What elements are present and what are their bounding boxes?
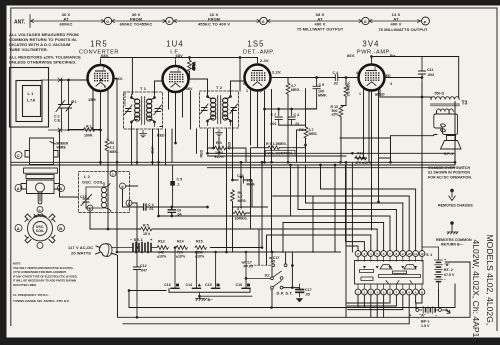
left black border bar (0, 0, 7, 345)
wire loop bottom (49, 129, 101, 131)
svg-text:1B5: 1B5 (88, 97, 96, 102)
tube V1 1R5 converter (88, 59, 114, 91)
ground A battery (445, 309, 450, 313)
svg-text:L 2: L 2 (84, 174, 91, 179)
svg-text:LYTIC CONDENSER FOR REPLACEMEN: LYTIC CONDENSER FOR REPLACEMENT. (13, 270, 67, 274)
svg-text:+: + (444, 258, 446, 262)
svg-text:B: B (59, 226, 62, 231)
svg-text:±10%: ±10% (176, 255, 186, 259)
svg-text:3: 3 (390, 82, 392, 86)
wire bottom rail y307.5 (129, 284, 455, 308)
svg-text:C 4: C 4 (294, 113, 300, 117)
svg-text:A: A (17, 226, 20, 231)
svg-text:R 1: R 1 (86, 125, 92, 129)
capacitor C5 (170, 181, 175, 186)
wire rail y207 (60, 130, 87, 197)
wire T2 plate down (207, 129, 209, 153)
optional dashed wire (251, 264, 272, 266)
wire vertical x241 (233, 162, 268, 207)
svg-text:3: 3 (87, 72, 89, 76)
svg-text:S.P.-1: S.P.-1 (444, 152, 454, 156)
svg-text:1.7A: 1.7A (27, 98, 36, 103)
wire 3V4 pins down (355, 90, 379, 230)
svg-text:R2: R2 (110, 141, 115, 145)
svg-text:600KC: 600KC (60, 22, 73, 27)
wire R8 bottom (305, 138, 307, 162)
wire plug bottom down (107, 248, 117, 257)
wire socket top bundle (346, 84, 423, 251)
osc coil body side view (25, 138, 58, 165)
note all voltages (9, 32, 79, 52)
wire R7 ends (233, 162, 251, 229)
svg-text:OSC. COIL: OSC. COIL (82, 180, 104, 185)
wire voice coil return (391, 135, 438, 163)
capacitor C4 coupling (335, 75, 337, 81)
svg-text:R14: R14 (177, 240, 184, 244)
wire long vertical x158 (158, 129, 160, 216)
svg-text:S2: S2 (265, 273, 271, 278)
capacitor C10 (241, 177, 243, 183)
svg-text:−: − (444, 278, 446, 282)
wire 3V4 screen right (385, 77, 423, 79)
wire T1 output right (160, 109, 163, 127)
svg-text:.001: .001 (270, 122, 277, 126)
svg-text:C 1: C 1 (71, 100, 77, 104)
resistor R9b 3.3MEG (344, 85, 348, 96)
svg-text:550 Ω: 550 Ω (435, 92, 445, 96)
svg-text:.047: .047 (140, 269, 147, 273)
tube V3 1S5 det-amp (245, 59, 271, 91)
svg-text:C.E.: C.E. (54, 119, 61, 123)
svg-text:P: P (424, 19, 427, 24)
wire long vertical x117 (116, 79, 118, 253)
wire rail y153 right (208, 153, 456, 167)
resistor R1 (84, 128, 95, 132)
svg-text:TUNING RANGE 535 -1620KC. STD.: TUNING RANGE 535 -1620KC. STD. B'C. (13, 299, 70, 303)
svg-text:T 1: T 1 (140, 86, 147, 91)
capacitor C2 trimmer (56, 80, 65, 130)
svg-text:1S5: 1S5 (247, 40, 264, 49)
svg-text:MEG.: MEG. (309, 132, 318, 136)
top black border bar (0, 0, 500, 6)
wire grid chain (341, 78, 346, 163)
resistor R7 (286, 83, 290, 94)
svg-text:15 Λ: 15 Λ (143, 232, 151, 236)
wire S2 top feeds (272, 252, 292, 277)
svg-text:.02: .02 (333, 82, 338, 86)
capacitor C12 electrolytic (134, 248, 141, 318)
svg-text:3V4: 3V4 (362, 40, 379, 49)
switch S1 wafer box (355, 261, 424, 285)
svg-text:100K: 100K (84, 134, 93, 138)
svg-text:C 4: C 4 (333, 71, 339, 75)
svg-text:7: 7 (260, 90, 262, 94)
svg-text:12: 12 (421, 252, 424, 256)
capacitor C14 (144, 204, 146, 210)
svg-text:3: 3 (162, 73, 164, 77)
wire tube3 plate right (287, 94, 289, 117)
svg-text:400 V: 400 V (391, 22, 402, 27)
svg-text:B+: B+ (390, 53, 396, 58)
svg-text:D.P. S.T.: D.P. S.T. (277, 291, 293, 296)
resistor R2 (105, 139, 109, 150)
svg-text:BT- 2: BT- 2 (444, 268, 453, 272)
speaker SP-1 (441, 136, 462, 150)
switch S2 DPST (271, 271, 283, 289)
wire x288 down (287, 117, 289, 162)
svg-text:FOR AC/ DC OPERATION.: FOR AC/ DC OPERATION. (428, 175, 472, 179)
svg-text:IF ANY OTHER TYPE OF ELECTROLY: IF ANY OTHER TYPE OF ELECTROLYTIC IS USE… (13, 274, 78, 278)
transformer T1 (124, 92, 163, 129)
svg-text:G: G (364, 20, 367, 24)
wire x296 (297, 130, 306, 162)
svg-text:RETURN B—: RETURN B— (441, 243, 464, 247)
svg-text:A: A (415, 290, 417, 294)
wire x190 vertical (191, 91, 197, 153)
svg-text:G: G (262, 20, 265, 24)
wire long vertical x165 (165, 129, 167, 165)
svg-text:.01: .01 (149, 207, 154, 211)
svg-text:68V: 68V (186, 87, 193, 91)
svg-text:C13: C13 (164, 283, 171, 287)
S1 pin stubs (358, 256, 422, 289)
link symbol bottom (58, 128, 62, 132)
svg-text:MEG.: MEG. (238, 199, 247, 203)
svg-text:IN DOTTED LINES.: IN DOTTED LINES. (13, 283, 37, 287)
svg-text:1: 1 (359, 92, 361, 96)
svg-text:75 MILLIWATT OUTPUT: 75 MILLIWATT OUTPUT (297, 27, 344, 32)
plug P1 117V (96, 244, 113, 257)
svg-text:MEG.: MEG. (291, 88, 300, 92)
svg-text:11: 11 (414, 252, 417, 256)
svg-text:.05: .05 (270, 260, 275, 264)
node G4 (362, 17, 369, 24)
node G1 (104, 17, 111, 24)
inductor L1 loop antenna (10, 68, 49, 128)
svg-text:G: G (106, 20, 109, 24)
svg-text:R13: R13 (158, 240, 165, 244)
capacitor C13 (174, 248, 176, 288)
wire L2 to C14 (123, 186, 208, 248)
resistor R6 (231, 190, 235, 201)
wire rail y252 (117, 251, 341, 253)
wire tube1 plate top (101, 58, 258, 95)
wire 3V4 plate to T3 (380, 89, 431, 100)
label 68X AT 400V 75 MILLIWATT OUTPUT (297, 12, 344, 32)
wire vertical x232 (232, 109, 234, 252)
wire heater rail (210, 162, 262, 247)
resistor R13 (157, 246, 168, 250)
svg-text:1R5: 1R5 (90, 40, 108, 49)
svg-text:MODELS 4L02, 4L02G,: MODELS 4L02, 4L02G, (485, 235, 495, 326)
wire tube1 pin down to R1 (93, 88, 95, 130)
resistor R2b screen 1U4 (188, 60, 192, 71)
resistor R9 volume control (268, 146, 279, 150)
svg-text:TUBE VOLTMETER.: TUBE VOLTMETER. (9, 47, 48, 52)
svg-text:CONVERTER: CONVERTER (79, 50, 119, 56)
svg-text:S1 SHOWN IN POSITION: S1 SHOWN IN POSITION (428, 171, 470, 175)
S1 bottom contact row (355, 289, 425, 295)
wire switch S2 verticals (272, 252, 300, 308)
svg-text:"A": "A" (419, 313, 426, 318)
svg-text:2: 2 (178, 68, 180, 72)
green wire tag (50, 142, 55, 145)
note all resistors (9, 55, 81, 65)
wire T1 secondary to tube2 grid (155, 81, 163, 94)
svg-text:PWR.-AMP.: PWR.-AMP. (357, 50, 391, 56)
wire vol control area (251, 89, 306, 163)
resistor R8 (304, 127, 308, 138)
wire 3V4 plate top B+ (372, 57, 459, 98)
svg-text:4 7: 4 7 (237, 207, 242, 211)
terminal A circled bottom view (15, 225, 22, 232)
wire tube1 right 34V (114, 78, 118, 80)
label MODELS (471, 235, 495, 338)
wire vertical x219 (218, 137, 220, 153)
wire T1 ground bus (132, 127, 144, 165)
wire 1S5 plate through R7 (287, 83, 289, 94)
common bus bracket (169, 289, 250, 293)
wire C10 R6 tie (233, 180, 253, 207)
S1 top contact row (355, 251, 425, 257)
wire screen drop T2 (239, 58, 241, 92)
capacitor C6 (168, 207, 175, 216)
wire loop top to grid (41, 79, 88, 81)
wire socket bottom drops (123, 295, 416, 324)
L2 pin a circled (87, 205, 93, 211)
coil base with lugs (21, 180, 60, 194)
L2 pin d circled (120, 183, 126, 189)
speaker voice coil (434, 114, 458, 135)
terminal A circled (15, 185, 22, 192)
wire R2b to plate rail (189, 58, 191, 80)
wire vertical x213 (213, 129, 215, 148)
svg-text:C12: C12 (140, 264, 147, 268)
svg-text:WIRE: WIRE (57, 146, 67, 150)
capacitor C16 (245, 252, 247, 288)
resistor R15 (195, 246, 206, 250)
ground below T1 (140, 131, 147, 137)
label 16X FROM 455KC TO 400V (198, 12, 230, 27)
svg-text:20 WATTS: 20 WATTS (71, 251, 91, 256)
resistor R3 (215, 146, 226, 150)
wire tube1 cathode down (100, 91, 102, 164)
label 36X AT 600KC (60, 12, 73, 27)
L2 winding (101, 183, 111, 211)
L2 pin c circled (110, 171, 116, 177)
resistor R10 (339, 106, 343, 117)
svg-text:2: 2 (374, 67, 376, 71)
capacitor C14e (195, 252, 197, 288)
wire plug to SE1 (111, 247, 113, 249)
terminal a circled small (37, 207, 43, 213)
svg-text:d: d (121, 185, 123, 189)
svg-text:USE ONLY ZENITH NON-INDUCTIVE: USE ONLY ZENITH NON-INDUCTIVE ELECTRO- (13, 266, 74, 270)
svg-text:T3: T3 (462, 101, 468, 107)
svg-text:2: 2 (103, 67, 105, 71)
svg-text:I.F. FREQUENCY 455 KC.: I.F. FREQUENCY 455 KC. (13, 293, 49, 297)
capacitor C7 (275, 109, 282, 125)
capacitor C15e (215, 252, 217, 288)
svg-text:6: 6 (104, 85, 106, 89)
svg-text:600KC TO455KC: 600KC TO455KC (120, 22, 153, 27)
svg-text:.003: .003 (427, 73, 434, 77)
resistor R5 (141, 227, 152, 231)
svg-text:470Λ: 470Λ (192, 62, 196, 71)
label 14X AT 400V 75 MILLIWATTS OUTPUT (378, 12, 428, 32)
wire R1 left to loop (69, 129, 101, 131)
capacitor C1 trimmer (66, 80, 74, 130)
wire det cap rails (265, 109, 317, 127)
transformer T3 primary (431, 97, 460, 112)
svg-text:L 1: L 1 (28, 91, 35, 96)
chassis connection (450, 189, 454, 193)
measurement arrowheads (31, 19, 421, 22)
svg-text:REMOTES COMMON: REMOTES COMMON (436, 238, 472, 242)
wire vertical x226 down (226, 129, 228, 252)
svg-text:2.2V.: 2.2V. (272, 70, 281, 75)
svg-text:REMOTES CHASSIS: REMOTES CHASSIS (438, 204, 473, 208)
wire bundle elbows left (159, 165, 416, 265)
wire right column drops (439, 102, 456, 308)
wire long vertical x171 (171, 129, 173, 162)
svg-text:C16: C16 (236, 283, 243, 287)
svg-text:C17: C17 (305, 288, 312, 292)
capacitor C9 (306, 78, 321, 109)
resistor R7 10MEG (235, 211, 246, 215)
svg-text:86V.: 86V. (347, 53, 355, 58)
svg-text:1: 1 (246, 89, 248, 93)
svg-text:B−: B− (208, 297, 214, 302)
wire long rail y163.5 (11, 162, 455, 165)
svg-text:A: A (17, 186, 20, 191)
svg-text:T 2: T 2 (216, 85, 223, 90)
wire tube3 pins down (251, 90, 272, 163)
transformer T2 (200, 91, 239, 128)
svg-text:"B": "B" (444, 263, 450, 267)
terminal B circled (58, 185, 65, 192)
ground B- (200, 292, 253, 298)
common return B- (450, 221, 454, 225)
svg-text:BP-1: BP-1 (421, 320, 429, 324)
svg-text:4: 4 (356, 71, 358, 75)
svg-text:C11: C11 (427, 68, 433, 72)
wire bundle pass verticals (272, 162, 353, 317)
svg-text:MMF.: MMF. (318, 93, 327, 97)
battery BP-1 1.5V "A" (416, 307, 446, 314)
svg-text:2.4V.: 2.4V. (260, 58, 269, 63)
ground below T2 (216, 130, 223, 136)
svg-text:RED: RED (200, 150, 204, 158)
wire long vertical x152 (152, 129, 154, 165)
svg-text:10MEG.: 10MEG. (235, 217, 248, 221)
resistor R12 (355, 156, 366, 160)
node P (422, 17, 430, 25)
svg-text:R 5: R 5 (143, 224, 149, 228)
svg-text:ANT.: ANT. (14, 20, 26, 26)
L2 pin b circled (126, 200, 132, 206)
svg-text:3.3 MEG.: 3.3 MEG. (347, 81, 351, 96)
svg-text:2.2: 2.2 (110, 146, 115, 150)
S1 pin arrows inside (363, 266, 417, 269)
inductor L2 dashed box (79, 172, 130, 213)
svg-text:C 5: C 5 (177, 178, 183, 182)
node G3 (260, 17, 267, 24)
svg-text:67.5 V: 67.5 V (444, 273, 455, 277)
wire tube2 plate right (189, 79, 208, 94)
S1 pin digits (357, 252, 424, 294)
svg-text:1U4: 1U4 (166, 40, 184, 49)
svg-text:R15: R15 (196, 240, 203, 244)
mounting plate lower (26, 175, 54, 179)
shield dashes (124, 93, 126, 106)
capacitor C4b (288, 109, 295, 125)
label 369 FROM 600KC TO 455KC (120, 12, 153, 27)
svg-text:c: c (112, 173, 114, 177)
svg-text:117 V AC-DC: 117 V AC-DC (68, 245, 93, 250)
svg-text:75 MILLIWATTS OUTPUT: 75 MILLIWATTS OUTPUT (378, 27, 428, 32)
svg-text:NOTE:: NOTE: (13, 262, 21, 266)
mounting plate upper (24, 168, 58, 173)
wire C8 grid line (271, 78, 359, 84)
wire C16 to S2 (246, 277, 271, 279)
bottom black border bar (0, 338, 500, 345)
svg-text:IT WILL BE NECESSARY TO ADD PA: IT WILL BE NECESSARY TO ADD PARTS SHOWN (13, 279, 76, 283)
wire R12 right (340, 138, 391, 162)
svg-text:4L02W, 4L02X, Ch: 4AP1: 4L02W, 4L02X, Ch: 4AP1 (471, 240, 481, 338)
wire T3 secondary to VC (437, 112, 450, 115)
svg-text:COIL: COIL (36, 229, 45, 233)
wire L2 internals (86, 182, 104, 208)
wire socket to batteries (416, 295, 422, 310)
capacitor C11 (419, 57, 426, 85)
wire grid cap tube1 (62, 79, 88, 81)
svg-text:1.5 V: 1.5 V (421, 324, 430, 328)
tube V4 3V4 pwr-amp (359, 59, 385, 91)
resistor R14 (176, 246, 187, 250)
wire tube2 pins down (169, 92, 183, 143)
svg-text:PP.05: PP.05 (244, 265, 253, 269)
terminal B circled bottom view (58, 225, 65, 232)
svg-text:R 9 1.0MEG.: R 9 1.0MEG. (266, 142, 287, 146)
svg-text:±5%: ±5% (332, 113, 340, 117)
wire R3 row (208, 148, 247, 162)
svg-text:B: B (421, 290, 423, 294)
svg-text:DET.-AMP.: DET.-AMP. (243, 50, 275, 56)
wire tube1 pin5 down (107, 88, 109, 229)
wire long vertical x137 (136, 129, 138, 164)
node G2 (166, 17, 173, 24)
capacitor C15 trimmer (81, 195, 92, 209)
terminal C circled (15, 152, 22, 159)
note change-over switch (428, 166, 472, 179)
svg-text:C15: C15 (205, 283, 212, 287)
S1 wafer contacts (360, 265, 421, 285)
tube V2 1U4 IF (163, 60, 189, 92)
svg-text:C 9: C 9 (319, 83, 325, 87)
svg-text:±10%: ±10% (157, 255, 167, 259)
svg-text:.05: .05 (305, 293, 310, 297)
wire bottom rail y317 (111, 254, 470, 318)
rectifier SE-1 selenium (112, 243, 157, 253)
svg-text:MMF.: MMF. (247, 183, 256, 187)
svg-text:C: C (17, 153, 20, 158)
svg-text:455KC TO 400 V: 455KC TO 400 V (198, 22, 230, 27)
svg-text:10: 10 (408, 252, 411, 256)
svg-text:C14: C14 (186, 283, 193, 287)
wire top measurement line (30, 15, 421, 28)
svg-text:S 1: S 1 (426, 252, 433, 257)
